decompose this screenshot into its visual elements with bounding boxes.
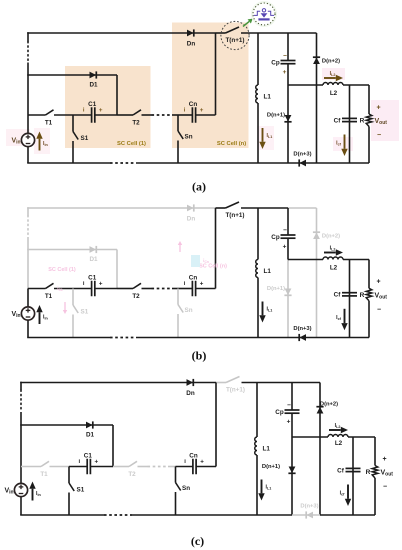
wire bottom rail dashed continuation: [104, 514, 132, 516]
wire bottom rail right: [317, 337, 370, 339]
current arrow Icf: [341, 135, 347, 157]
svg-text:R: R: [360, 292, 365, 299]
svg-text:T(n+1): T(n+1): [225, 212, 244, 219]
wire left vertical dotted continuation: [27, 216, 29, 238]
svg-text:+: +: [382, 456, 386, 463]
current arrow IL2: [324, 249, 343, 255]
svg-text:Vin: Vin: [12, 311, 21, 319]
svg-text:SC Cell (1): SC Cell (1): [48, 267, 76, 273]
wire L1 branch lower: [257, 103, 259, 163]
switch S1 lever: [69, 483, 74, 491]
wire top rail rightmost segment: [292, 382, 320, 384]
svg-text:−: −: [377, 132, 381, 139]
wire bottom rail mid: [136, 162, 288, 164]
svg-text:C1: C1: [84, 452, 93, 459]
resistor R: [372, 466, 378, 479]
faint highlight behind Vout labels: [371, 100, 399, 141]
switch Sn lever: [178, 131, 183, 139]
wire Sn branch lower: [175, 492, 177, 515]
svg-text:T2: T2: [128, 471, 136, 478]
wire Cp branch to output rail: [287, 64, 289, 85]
svg-text:+: +: [376, 279, 380, 286]
wire Sn branch upper: [177, 289, 179, 305]
inductor L2: [323, 257, 343, 260]
svg-text:Dn: Dn: [186, 390, 195, 397]
wire riser from D1 to main rail: [116, 250, 118, 289]
wire bottom rail mid: [136, 337, 288, 339]
diode D1: [90, 71, 97, 78]
svg-text:T(n+1): T(n+1): [226, 387, 245, 394]
wire output rail right: [343, 259, 369, 261]
capacitor C1: [92, 107, 95, 123]
svg-text:−: −: [287, 402, 291, 409]
wire top rail right of T(n+1): [241, 207, 288, 209]
faint highlight behind Icf label: [333, 137, 353, 151]
current arrow Iin: [36, 132, 42, 151]
svg-text:Dn: Dn: [187, 216, 196, 223]
wire main rail: riser junction to T2: [113, 466, 129, 468]
wire left vertical top stub: [27, 32, 29, 41]
switch Sn lever: [176, 483, 181, 491]
wire main rail: S1 junction to C1: [69, 466, 87, 468]
svg-text:L2: L2: [335, 440, 343, 447]
wire bottom rail dashed continuation: [110, 162, 136, 164]
wire Cp branch upper: [291, 383, 293, 410]
wire D1 branch horizontal: [27, 249, 117, 251]
wire riser from main rail to top rail: [215, 33, 217, 115]
wire L1 branch lower: [257, 278, 259, 338]
switch T2: [133, 110, 141, 115]
SC Cell (1) shaded region: [65, 66, 151, 148]
wire Cp branch to output rail: [291, 413, 293, 437]
svg-text:D1: D1: [89, 82, 98, 89]
svg-text:D(n+1): D(n+1): [267, 286, 285, 292]
ghost arrow up: [178, 241, 182, 252]
svg-text:D1: D1: [86, 432, 95, 439]
svg-text:+: +: [200, 107, 204, 114]
diode D(n+1): [284, 115, 291, 122]
wire bottom rail D(n+3) segment: [288, 162, 317, 164]
wire main rail: left vertical to T1: [21, 466, 41, 468]
svg-text:T(n+1): T(n+1): [225, 37, 244, 44]
svg-text:Vin: Vin: [12, 137, 21, 145]
svg-text:Cf: Cf: [334, 292, 342, 299]
source Vin: [21, 307, 34, 320]
wire top rail rightmost segment: [288, 207, 317, 209]
svg-text:−: −: [283, 53, 287, 60]
diode D(n+1): [288, 467, 295, 474]
diode Dn: [187, 204, 194, 211]
capacitor Cf: [342, 293, 357, 296]
wire bottom rail D(n+3) segment: [292, 514, 320, 516]
wire Cp branch upper: [287, 208, 289, 235]
svg-text:+: +: [283, 243, 287, 250]
inductor L1: [256, 85, 258, 103]
svg-text:+: +: [376, 104, 380, 111]
wire Sn branch lower: [177, 141, 179, 164]
wire output rail left: [288, 259, 323, 261]
svg-text:Cn: Cn: [189, 452, 198, 459]
wire main rail: dashes to Sn junction: [168, 466, 176, 468]
wire main rail: C1 to riser junction: [95, 114, 117, 116]
switch S1 lever: [73, 132, 78, 140]
switch T(n+1): [226, 27, 240, 33]
wire D1 branch horizontal: [27, 74, 117, 76]
svg-text:+: +: [99, 107, 103, 114]
wire left vertical below source: [20, 497, 22, 515]
wire left vertical below source: [27, 320, 29, 337]
svg-text:Sn: Sn: [185, 134, 193, 141]
svg-text:T1: T1: [40, 471, 48, 478]
wire L1 branch lower: [256, 455, 258, 515]
wire top rail riser-to-switch segment: [216, 382, 226, 384]
svg-text:(b): (b): [192, 348, 207, 362]
wire main rail: T1 to S1 junction: [54, 288, 73, 290]
switch T(n+1): [226, 377, 240, 383]
wire R branch upper: [374, 437, 376, 466]
svg-text:Cn: Cn: [189, 274, 198, 281]
svg-text:L1: L1: [263, 446, 271, 453]
svg-text:Cn: Cn: [189, 101, 198, 108]
svg-text:−: −: [383, 484, 387, 491]
wire left vertical mid lower: [27, 115, 29, 133]
faint highlight behind IL1 label: [257, 126, 274, 150]
current arrow IL1: [259, 302, 265, 323]
svg-text:D(n+3): D(n+3): [293, 152, 311, 158]
wire S1 branch upper: [68, 467, 70, 484]
wire left vertical top stub: [27, 207, 29, 215]
svg-text:D1: D1: [89, 256, 98, 263]
wire bottom rail dashed continuation: [110, 337, 136, 339]
wire main rail: riser junction to T2: [117, 114, 133, 116]
wire R branch lower: [368, 301, 370, 338]
diode D(n+3): [306, 511, 313, 518]
green annotation arrow: [243, 19, 253, 27]
dotted circle around transistor icon: [253, 3, 275, 25]
svg-text:Cf: Cf: [337, 467, 345, 474]
switch T2: [129, 461, 137, 466]
wire left vertical mid lower: [20, 467, 22, 484]
capacitor Cp: [285, 410, 300, 413]
wire S1 branch upper: [72, 115, 74, 132]
resistor R: [366, 288, 372, 301]
diode D(n+3): [299, 334, 306, 341]
wire riser from main rail to top rail: [215, 208, 217, 289]
diode D(n+3): [299, 159, 306, 166]
svg-text:D(n+1): D(n+1): [262, 464, 280, 470]
wire main rail: C1 to riser junction: [90, 466, 113, 468]
wire L1 branch upper: [257, 208, 259, 260]
wire top rail left segment: [27, 32, 215, 34]
svg-text:T2: T2: [132, 293, 140, 300]
current arrow Icf: [341, 309, 347, 331]
capacitor Cp: [281, 235, 296, 238]
wire Cp branch to output rail: [287, 238, 289, 259]
wire D(n+1) branch: [287, 85, 289, 163]
wire D(n+1) branch: [287, 260, 289, 338]
svg-text:L1: L1: [264, 268, 272, 275]
current arrow Iin: [36, 305, 42, 324]
wire main rail: dashes to Sn junction: [172, 288, 178, 290]
svg-text:+: +: [287, 418, 291, 425]
wire top rail left segment: [27, 207, 215, 209]
svg-text:+: +: [283, 69, 287, 76]
capacitor C1: [92, 281, 95, 297]
wire Sn branch upper: [177, 115, 179, 131]
wire output rail left: [288, 84, 323, 86]
svg-text:T1: T1: [45, 119, 53, 126]
wire main rail dashed continuation: [152, 288, 173, 290]
wire R branch upper: [368, 260, 370, 289]
wire main rail: left vertical to T1: [28, 288, 46, 290]
svg-text:+: +: [200, 458, 204, 465]
svg-text:SC Cell (n): SC Cell (n): [199, 264, 227, 270]
wire top rail riser-to-switch segment: [216, 32, 226, 34]
wire main rail: C1 to riser junction: [95, 288, 117, 290]
wire bottom rail left: [27, 162, 110, 164]
inductor L2: [328, 435, 348, 438]
wire bottom rail left: [20, 514, 104, 516]
current arrow IL2: [324, 75, 343, 81]
wire main rail: T2 to dashes: [142, 288, 152, 290]
wire top rail left segment: [20, 382, 216, 384]
svg-text:S1: S1: [81, 308, 89, 315]
svg-text:S1: S1: [81, 135, 89, 142]
wire S1 branch upper: [72, 289, 74, 306]
current arrow Icf: [345, 485, 351, 507]
wire Cf branch: [349, 85, 351, 163]
wire D(n+1) branch: [291, 437, 293, 515]
wire top rail riser-to-switch segment: [216, 207, 226, 209]
svg-text:T1: T1: [45, 293, 53, 300]
svg-text:R: R: [366, 469, 371, 476]
svg-text:Vout: Vout: [381, 470, 394, 478]
svg-text:Cp: Cp: [271, 60, 280, 67]
switch S1 lever: [73, 305, 78, 313]
wire output rail right: [343, 84, 369, 86]
diode D1: [90, 246, 97, 253]
wire top rail rightmost segment: [288, 32, 317, 34]
current arrow IL1: [259, 128, 265, 149]
wire main rail: left vertical to T1: [28, 114, 46, 116]
svg-text:Vin: Vin: [5, 487, 14, 495]
ghost arrow down: [63, 302, 67, 314]
faint highlight behind Iin arrow: [34, 128, 50, 154]
wire bottom rail D(n+3) segment: [288, 337, 317, 339]
wire Cf branch: [349, 260, 351, 338]
switch T(n+1): [226, 202, 240, 208]
capacitor Cf: [346, 468, 361, 471]
wire bottom rail right: [317, 162, 370, 164]
wire riser from main rail to top rail: [215, 383, 217, 467]
wire D(n+2) riser upper: [316, 208, 318, 260]
diode D(n+1): [284, 289, 291, 296]
svg-text:SC Cell (n): SC Cell (n): [217, 141, 246, 147]
wire main rail: Sn junction to Cn: [178, 288, 192, 290]
wire left vertical dotted continuation: [27, 42, 29, 63]
capacitor Cn: [192, 107, 195, 123]
inductor L1: [255, 437, 257, 455]
wire bottom rail left: [27, 337, 110, 339]
wire main rail: T1 to S1 junction: [54, 114, 73, 116]
wire main rail: T2 to dashes: [142, 114, 152, 116]
svg-text:+: +: [200, 280, 204, 287]
svg-text:L2: L2: [330, 90, 338, 97]
svg-text:Cp: Cp: [275, 409, 284, 416]
svg-text:−: −: [377, 306, 381, 313]
dashed highlight circle around T(n+1): [221, 21, 249, 49]
wire Cp branch upper: [287, 33, 289, 60]
wire bottom rail mid: [132, 514, 292, 516]
inductor L2: [323, 83, 343, 86]
wire top rail right of T(n+1): [241, 32, 288, 34]
capacitor Cn: [193, 459, 196, 475]
svg-text:+: +: [99, 280, 103, 287]
diode D(n+2): [313, 57, 320, 64]
wire left vertical mid upper: [20, 412, 22, 467]
wire main rail: Sn junction to Cn: [176, 466, 193, 468]
diode Dn: [187, 379, 194, 386]
source Vin: [14, 483, 27, 496]
svg-text:R: R: [360, 118, 365, 125]
transistor icon (MOSFET symbol): [254, 9, 274, 20]
wire main rail: Cn to riser: [196, 288, 216, 290]
capacitor Cp: [281, 61, 296, 64]
svg-text:C1: C1: [88, 274, 97, 281]
light halo behind transistor icon: [251, 1, 277, 27]
svg-text:Sn: Sn: [185, 307, 193, 314]
capacitor Cn: [192, 281, 195, 297]
svg-text:C1: C1: [88, 101, 97, 108]
wire L1 branch upper: [256, 383, 258, 438]
svg-text:D(n+3): D(n+3): [300, 504, 318, 510]
wire riser from D1 to main rail: [116, 75, 118, 115]
current arrow IL1: [258, 480, 264, 501]
wire main rail: Cn to riser: [196, 466, 216, 468]
svg-text:L2: L2: [330, 264, 338, 271]
capacitor Cf: [342, 118, 357, 121]
wire main rail: S1 junction to C1: [73, 114, 92, 116]
source Vin: [21, 133, 34, 146]
wire left vertical mid upper: [27, 237, 29, 289]
wire output rail left: [292, 436, 328, 438]
wire main rail dashed continuation: [152, 114, 173, 116]
wire D(n+2) riser lower: [316, 85, 318, 163]
svg-text:L1: L1: [264, 94, 272, 101]
wire left vertical dotted continuation: [20, 390, 22, 412]
wire D1 branch horizontal: [20, 424, 113, 426]
wire main rail: dashes to Sn junction: [172, 114, 178, 116]
wire R branch lower: [374, 478, 376, 515]
wire main rail: Cn to riser: [196, 114, 216, 116]
svg-text:S1: S1: [77, 486, 85, 493]
resistor R: [366, 114, 372, 127]
switch T1: [46, 110, 54, 115]
svg-text:Vout: Vout: [375, 293, 388, 301]
svg-text:+: +: [94, 458, 98, 465]
switch Sn lever: [178, 305, 183, 313]
wire left vertical below source: [27, 147, 29, 163]
wire left vertical mid lower: [27, 289, 29, 307]
diode D1: [86, 421, 93, 428]
svg-text:D(n+3): D(n+3): [293, 326, 311, 332]
wire main rail: T2 to dashes: [138, 466, 148, 468]
wire D(n+2) riser lower: [319, 437, 321, 515]
svg-text:D(n+2): D(n+2): [322, 58, 340, 64]
svg-text:−: −: [283, 227, 287, 234]
svg-text:(c): (c): [191, 534, 204, 548]
diode Dn: [187, 29, 194, 36]
wire output rail right: [348, 436, 375, 438]
wire S1 branch lower: [72, 315, 74, 338]
faint highlight behind IL2 label: [322, 68, 345, 80]
wire D(n+2) riser upper: [316, 33, 318, 85]
wire top rail right of T(n+1): [242, 382, 293, 384]
wire Sn branch upper: [175, 467, 177, 483]
svg-text:Vout: Vout: [375, 118, 388, 126]
capacitor C1: [87, 459, 90, 475]
switch T1: [41, 461, 49, 466]
wire left vertical mid upper: [27, 63, 29, 116]
wire main rail: S1 junction to C1: [73, 288, 92, 290]
wire D(n+2) riser lower: [316, 260, 318, 338]
wire Cf branch: [352, 437, 354, 515]
current arrow Iin: [29, 482, 35, 501]
current arrow IL2: [329, 427, 348, 433]
svg-text:T2: T2: [132, 119, 140, 126]
wire main rail: riser junction to T2: [117, 288, 133, 290]
diode D(n+2): [316, 407, 323, 414]
diode D(n+2): [313, 232, 320, 239]
switch T1: [46, 283, 54, 288]
ghost cyan box: [191, 255, 200, 267]
wire main rail: Sn junction to Cn: [178, 114, 192, 116]
svg-text:Cp: Cp: [271, 234, 280, 241]
wire bottom rail right: [320, 514, 375, 516]
wire main rail dashed continuation: [148, 466, 169, 468]
svg-text:Sn: Sn: [182, 485, 190, 492]
wire S1 branch lower: [72, 141, 74, 163]
wire main rail: T1 to S1 junction: [50, 466, 70, 468]
svg-text:SC Cell (1): SC Cell (1): [117, 141, 146, 147]
svg-text:D(n+2): D(n+2): [322, 233, 340, 239]
wire L1 branch upper: [257, 33, 259, 85]
wire riser from D1 to main rail: [112, 425, 114, 467]
svg-text:Dn: Dn: [187, 41, 196, 48]
svg-text:(a): (a): [192, 179, 206, 193]
wire S1 branch lower: [68, 493, 70, 516]
inductor L1: [256, 260, 258, 278]
svg-text:D(n+2): D(n+2): [320, 402, 338, 408]
SC Cell (n) shaded region: [172, 23, 249, 149]
svg-text:D(n+1): D(n+1): [267, 113, 285, 119]
wire Sn branch lower: [177, 314, 179, 338]
svg-text:Cf: Cf: [334, 117, 342, 124]
wire left vertical top stub: [20, 382, 22, 390]
wire D(n+2) riser upper: [319, 383, 321, 438]
wire R branch upper: [368, 85, 370, 114]
switch T2: [133, 283, 141, 288]
faint highlight behind Vin label: [6, 129, 30, 146]
wire R branch lower: [368, 127, 370, 164]
